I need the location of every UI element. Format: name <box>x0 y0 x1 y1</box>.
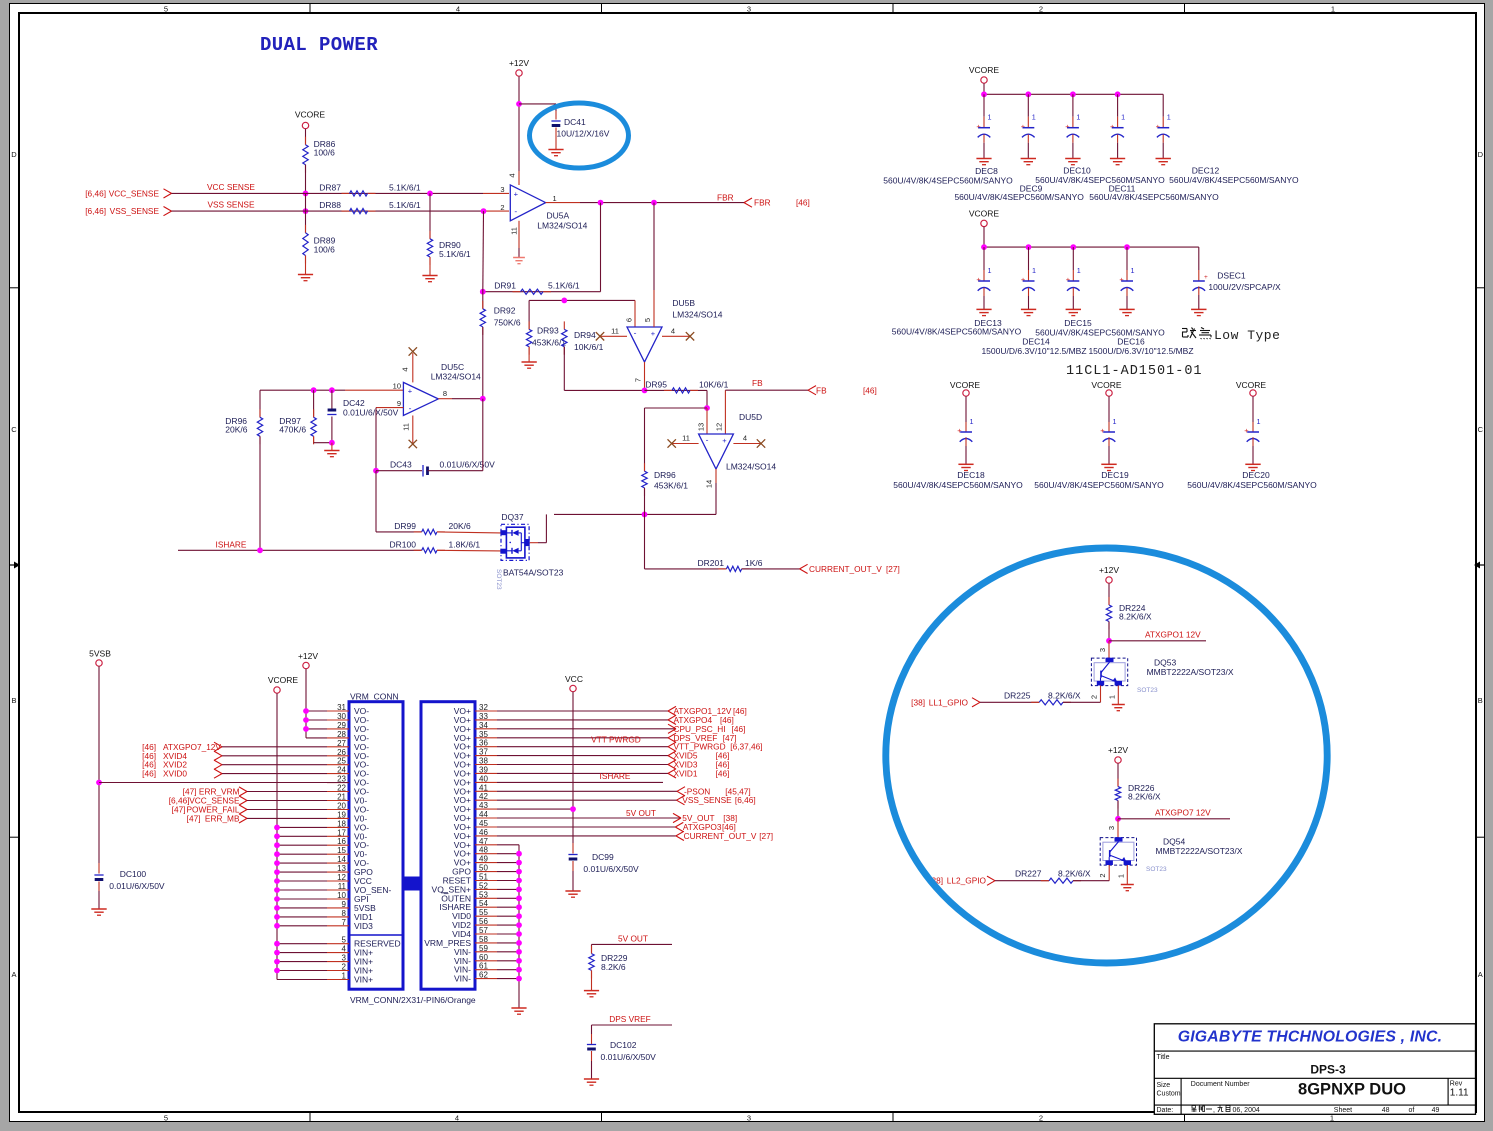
svg-text:3: 3 <box>500 185 504 194</box>
svg-text:VRM_CONN/2X31/-PIN6/Orange: VRM_CONN/2X31/-PIN6/Orange <box>350 995 476 1005</box>
wire +12V to DU5A pin 4 <box>518 77 520 172</box>
svg-text:Custom: Custom <box>1157 1091 1181 1098</box>
svg-text:51: 51 <box>479 873 488 882</box>
resistor DR225 inline <box>980 701 1039 703</box>
wire ATXGPO7_12V <box>1118 818 1230 820</box>
svg-text:VCC: VCC <box>565 674 583 684</box>
svg-text:VSS_SENSE: VSS_SENSE <box>110 206 160 216</box>
svg-text:VIN+: VIN+ <box>354 975 373 985</box>
svg-text:DEC19: DEC19 <box>1101 470 1129 480</box>
resistor DR88 inline <box>342 210 350 212</box>
svg-text:5: 5 <box>342 936 347 945</box>
svg-text:ISHARE: ISHARE <box>600 771 631 781</box>
svg-text:DEC12: DEC12 <box>1192 166 1220 176</box>
node pin13/DR96 <box>704 405 710 411</box>
svg-text:D: D <box>1478 150 1484 159</box>
svg-text:Rev: Rev <box>1450 1081 1463 1088</box>
svg-text:6: 6 <box>625 318 634 322</box>
svg-text:62: 62 <box>479 971 488 980</box>
svg-text:-: - <box>634 328 637 338</box>
svg-text:VIN-: VIN- <box>454 974 471 984</box>
right ports pins 32-46 <box>497 710 668 712</box>
svg-text:CURRENT_OUT_V: CURRENT_OUT_V <box>684 831 757 841</box>
node VCC pin43 <box>570 806 576 812</box>
svg-text:55: 55 <box>479 908 488 917</box>
wire DPS VREF stub <box>592 1024 673 1026</box>
node +12V/DC41 junction <box>516 101 522 107</box>
svg-text:58: 58 <box>479 935 488 944</box>
svg-text:13: 13 <box>696 423 705 431</box>
wire DC43 up to pin8 node <box>482 399 484 471</box>
svg-text:VCORE: VCORE <box>950 380 981 390</box>
svg-text:SOT23: SOT23 <box>1137 687 1158 694</box>
capacitor DEC15 <box>1072 247 1074 270</box>
svg-text:VCORE: VCORE <box>268 675 299 685</box>
svg-text:100U/2V/SPCAP/X: 100U/2V/SPCAP/X <box>1208 282 1281 292</box>
pin 11 stub DU5B <box>600 335 627 337</box>
svg-text:+: + <box>514 190 519 199</box>
node DR89 on VSS_SENSE <box>303 208 309 214</box>
svg-text:[27]: [27] <box>886 564 900 574</box>
svg-text:+: + <box>1100 426 1105 435</box>
svg-text:ISHARE: ISHARE <box>216 539 247 549</box>
svg-text:4: 4 <box>455 1113 459 1122</box>
svg-text:DC99: DC99 <box>592 852 614 862</box>
wire DU5A output FBR <box>546 202 580 204</box>
ground under DC102 <box>584 1078 599 1080</box>
ground under DR89 <box>298 274 313 276</box>
wire DR95 down to pin13 node <box>706 390 708 408</box>
svg-text:27: 27 <box>337 739 346 748</box>
svg-text:1: 1 <box>1121 113 1125 122</box>
svg-text:Date:: Date: <box>1157 1107 1174 1114</box>
svg-text:DR225: DR225 <box>1004 690 1031 700</box>
diode pair DQ37 BAT54A <box>501 524 529 560</box>
svg-text:560U/4V/8K/4SEPC560M/SANYO: 560U/4V/8K/4SEPC560M/SANYO <box>883 176 1013 186</box>
svg-text:1K/6: 1K/6 <box>745 558 763 568</box>
svg-text:DEC10: DEC10 <box>1063 166 1091 176</box>
svg-text:0.01U/6/X/50V: 0.01U/6/X/50V <box>109 881 165 891</box>
svg-text:+12V: +12V <box>1108 745 1128 755</box>
svg-text:2: 2 <box>1098 873 1107 877</box>
wire DR89 to ground <box>305 256 307 275</box>
svg-text:1: 1 <box>1167 113 1171 122</box>
svg-text:VCORE: VCORE <box>969 65 1000 75</box>
svg-text:5V OUT: 5V OUT <box>618 933 648 943</box>
svg-text:7: 7 <box>634 378 643 382</box>
wire DQ54 pin 1 to ground <box>1126 865 1128 885</box>
svg-text:560U/4V/8K/4SEPC560M/SANYO: 560U/4V/8K/4SEPC560M/SANYO <box>892 327 1022 337</box>
svg-text:VRM_CONN: VRM_CONN <box>350 692 399 702</box>
right bus pins 47-62 <box>497 844 519 846</box>
svg-text:DEC18: DEC18 <box>957 470 985 480</box>
svg-text:100/6: 100/6 <box>314 245 336 255</box>
svg-text:1: 1 <box>1116 874 1125 878</box>
pin 11 stub DU5D <box>672 443 699 445</box>
capacitor DEC16 <box>1126 247 1128 270</box>
svg-text:5.1K/6/1: 5.1K/6/1 <box>439 249 471 259</box>
svg-text:8GPNXP DUO: 8GPNXP DUO <box>1298 1081 1406 1099</box>
wire DR96 to node <box>644 488 646 515</box>
svg-text:LM324/SO14: LM324/SO14 <box>672 310 722 320</box>
resistor DR224 <box>1108 597 1110 605</box>
svg-text:8.2K/6: 8.2K/6 <box>601 962 626 972</box>
transistor DQ54 <box>1100 838 1136 866</box>
svg-text:5: 5 <box>643 318 652 322</box>
svg-text:FB: FB <box>816 385 827 395</box>
svg-text:9: 9 <box>342 900 347 909</box>
svg-text:1: 1 <box>1257 417 1261 426</box>
transistor DQ53 <box>1091 658 1127 686</box>
op-amp DU5A <box>510 185 545 221</box>
svg-text:+: + <box>976 122 981 131</box>
wire node to DR96-453K <box>645 407 708 409</box>
svg-text:48: 48 <box>479 846 488 855</box>
svg-text:2: 2 <box>1039 5 1043 14</box>
svg-text:560U/4V/8K/4SEPC560M/SANYO: 560U/4V/8K/4SEPC560M/SANYO <box>1035 175 1165 185</box>
svg-text:LL1_GPIO: LL1_GPIO <box>929 697 969 707</box>
svg-text:MMBT2222A/SOT23/X: MMBT2222A/SOT23/X <box>1156 846 1243 856</box>
svg-text:48: 48 <box>1382 1107 1390 1114</box>
svg-text:560U/4V/8K/4SEPC560M/SANYO: 560U/4V/8K/4SEPC560M/SANYO <box>1187 480 1317 490</box>
svg-text:10K/6/1: 10K/6/1 <box>574 342 604 352</box>
wire DU5C pin10 net <box>260 389 345 391</box>
svg-text:VSS SENSE: VSS SENSE <box>207 200 255 210</box>
bus +12V to pins 31-28 <box>305 669 307 738</box>
svg-text:ATXGPO1 12V: ATXGPO1 12V <box>1145 629 1201 639</box>
svg-text:DR99: DR99 <box>394 521 416 531</box>
svg-text:,: , <box>1213 1107 1215 1114</box>
svg-text:5.1K/6/1: 5.1K/6/1 <box>389 182 421 192</box>
annotation circle (transistors) <box>886 548 1327 963</box>
op-amp DU5C <box>403 382 438 415</box>
wire pin 43 to VCC <box>497 808 573 810</box>
svg-text:1: 1 <box>1032 113 1036 122</box>
svg-text:[6,46]: [6,46] <box>735 795 756 805</box>
svg-text:1: 1 <box>1113 417 1117 426</box>
svg-text:1: 1 <box>988 113 992 122</box>
svg-text:9: 9 <box>397 399 401 408</box>
node DR97 top <box>311 387 317 393</box>
svg-text:MMBT2222A/SOT23/X: MMBT2222A/SOT23/X <box>1147 667 1234 677</box>
svg-text:560U/4V/8K/4SEPC560M/SANYO: 560U/4V/8K/4SEPC560M/SANYO <box>1169 175 1299 185</box>
svg-text:14: 14 <box>705 480 714 488</box>
svg-text:A: A <box>1478 970 1483 979</box>
svg-text:100/6: 100/6 <box>314 148 336 158</box>
ground under DR90 <box>422 275 437 277</box>
svg-text:-: - <box>409 403 412 413</box>
wire ISHARE <box>178 549 422 551</box>
svg-text:DR95: DR95 <box>645 379 667 389</box>
svg-text:+12V: +12V <box>1099 565 1119 575</box>
svg-text:470K/6: 470K/6 <box>279 425 306 435</box>
resistor DR86 <box>305 137 307 145</box>
svg-text:DEC16: DEC16 <box>1117 337 1145 347</box>
capacitor DEC9 <box>1027 94 1029 116</box>
svg-text:0.01U/6/X/50V: 0.01U/6/X/50V <box>601 1052 657 1062</box>
wire DQ53 pin 3 <box>1108 641 1110 658</box>
svg-text:8.2K/6/X: 8.2K/6/X <box>1048 690 1081 700</box>
node ATXGPO1_12V <box>1106 638 1112 644</box>
node DC42 bottom <box>329 440 335 446</box>
resistor DR96 20K <box>259 390 261 417</box>
node DR86/DR89 on VCC_SENSE <box>303 191 309 197</box>
svg-text:57: 57 <box>479 926 488 935</box>
wire to DC41 <box>519 103 556 105</box>
svg-text:DEC8: DEC8 <box>975 166 998 176</box>
svg-text:1: 1 <box>1032 266 1036 275</box>
right margin arrow marker <box>1479 564 1485 566</box>
capacitor DEC19 <box>1108 396 1110 422</box>
bus bank2 <box>983 227 985 248</box>
wire 5VSB to pin 23 and DC100 <box>98 666 100 863</box>
svg-text:DU5C: DU5C <box>441 362 464 372</box>
svg-text:42: 42 <box>479 792 488 801</box>
annotation ellipse around DC41 <box>530 103 629 168</box>
capacitor DC100 <box>94 874 103 876</box>
wire DR86 to VCC_SENSE net <box>305 165 307 194</box>
svg-text:+: + <box>1204 274 1208 281</box>
svg-text:10: 10 <box>337 891 346 900</box>
wire VCC to DC99 <box>572 692 574 843</box>
node FBR/DR91 <box>598 200 604 206</box>
svg-text:11CL1-AD1501-01: 11CL1-AD1501-01 <box>1066 364 1203 379</box>
capacitor DEC20 <box>1252 396 1254 422</box>
svg-text:D: D <box>11 150 17 159</box>
svg-text:+: + <box>651 329 656 338</box>
svg-text:0.01U/6/X/50V: 0.01U/6/X/50V <box>440 460 496 470</box>
wire DR94 to DU5B output node <box>563 347 565 391</box>
svg-text:Sheet: Sheet <box>1334 1107 1352 1114</box>
svg-text:FBR: FBR <box>717 192 734 202</box>
svg-text:5VSB: 5VSB <box>89 649 111 659</box>
wire pin2 node down to DR92 <box>482 211 485 292</box>
svg-text:11: 11 <box>611 326 619 335</box>
svg-text:5V OUT: 5V OUT <box>626 808 656 818</box>
svg-text:19: 19 <box>337 810 346 819</box>
svg-text:1: 1 <box>1131 266 1135 275</box>
svg-text:[47]: [47] <box>172 805 186 815</box>
svg-text:DUAL POWER: DUAL POWER <box>260 34 378 56</box>
svg-text:0.01U/6/X/50V: 0.01U/6/X/50V <box>343 408 399 418</box>
svg-text:+: + <box>1021 275 1026 284</box>
svg-text:30: 30 <box>337 712 346 721</box>
svg-text:20K/6: 20K/6 <box>225 425 247 435</box>
svg-text:5.1K/6/1: 5.1K/6/1 <box>389 200 421 210</box>
svg-text:2: 2 <box>342 963 347 972</box>
svg-text:4: 4 <box>342 945 347 954</box>
wire VSS_SENSE to DU5A pin 2 <box>172 210 484 212</box>
svg-text:28: 28 <box>337 730 346 739</box>
svg-text:3: 3 <box>747 1113 751 1122</box>
svg-text:+: + <box>722 436 727 445</box>
svg-text:560U/4V/8K/4SEPC560M/SANYO: 560U/4V/8K/4SEPC560M/SANYO <box>893 480 1023 490</box>
node output/DR96 chain <box>642 512 648 518</box>
node ATXGPO7_12V <box>1115 816 1121 822</box>
svg-text:1: 1 <box>1076 113 1080 122</box>
svg-text:20K/6: 20K/6 <box>449 521 471 531</box>
svg-text:VCORE: VCORE <box>1236 380 1267 390</box>
svg-text:21: 21 <box>337 793 346 802</box>
svg-text:DR227: DR227 <box>1015 869 1042 879</box>
wire FB from pin12 <box>724 390 726 434</box>
node DR91 left <box>480 289 486 295</box>
svg-text:C: C <box>11 425 17 434</box>
svg-text:Title: Title <box>1157 1054 1170 1061</box>
svg-text:1: 1 <box>342 972 347 981</box>
svg-text:8: 8 <box>342 909 347 918</box>
svg-text:53: 53 <box>479 890 488 899</box>
svg-text:56: 56 <box>479 917 488 926</box>
svg-text:22: 22 <box>337 784 346 793</box>
resistor DR87 inline <box>342 192 350 194</box>
svg-text:46: 46 <box>479 828 488 837</box>
wire DU5B pin5 from FBR <box>653 203 655 290</box>
resistor DR229 <box>591 946 593 954</box>
resistor DR95 inline <box>645 389 708 391</box>
svg-text:560U/4V/8K/4SEPC560M/SANYO: 560U/4V/8K/4SEPC560M/SANYO <box>954 192 1084 202</box>
svg-text:C: C <box>1478 425 1484 434</box>
ground under DC99 <box>565 890 580 892</box>
svg-text:[46]: [46] <box>796 198 810 208</box>
svg-text:1: 1 <box>553 194 557 203</box>
svg-text:3: 3 <box>747 5 751 14</box>
svg-text:18: 18 <box>337 819 346 828</box>
svg-text:47: 47 <box>479 837 488 846</box>
svg-text:DC100: DC100 <box>120 869 147 879</box>
svg-text:LL2_GPIO: LL2_GPIO <box>947 876 987 886</box>
svg-text:DR201: DR201 <box>698 558 725 568</box>
svg-text:8.2K/6/X: 8.2K/6/X <box>1128 792 1161 802</box>
svg-text:0.01U/6/X/50V: 0.01U/6/X/50V <box>583 864 639 874</box>
wire VCC_SENSE to DU5A pin 3 <box>172 192 484 194</box>
svg-text:DPS-3: DPS-3 <box>1310 1063 1346 1077</box>
pin 4 stub DU5C <box>412 353 414 382</box>
svg-text:DPS VREF: DPS VREF <box>609 1014 651 1024</box>
capacitor DEC12 <box>1162 94 1164 116</box>
svg-text:39: 39 <box>479 765 488 774</box>
svg-text:1: 1 <box>1108 695 1117 699</box>
svg-text:1: 1 <box>1077 266 1081 275</box>
resistor DR100 inline <box>414 549 422 551</box>
svg-text:DR91: DR91 <box>494 281 516 291</box>
svg-text:20: 20 <box>337 802 346 811</box>
svg-text:43: 43 <box>479 801 488 810</box>
svg-text:06, 2004: 06, 2004 <box>1233 1107 1260 1114</box>
wire DR96 to ISHARE <box>259 436 261 550</box>
svg-text:DEC20: DEC20 <box>1242 470 1270 480</box>
svg-text:DR100: DR100 <box>390 539 417 549</box>
svg-text:B: B <box>1478 696 1483 705</box>
svg-text:+: + <box>976 275 981 284</box>
capacitor DSEC1 <box>1198 247 1200 270</box>
svg-text:+: + <box>1065 122 1070 131</box>
svg-text:VCORE: VCORE <box>295 110 326 120</box>
svg-text:38: 38 <box>479 757 488 766</box>
node pin8 <box>480 396 486 402</box>
svg-text:A: A <box>11 970 16 979</box>
svg-text:VCC_SENSE: VCC_SENSE <box>109 188 160 198</box>
svg-text:41: 41 <box>479 783 488 792</box>
svg-text:10U/12/X/16V: 10U/12/X/16V <box>557 129 610 139</box>
pin 4 stub DU5D <box>733 443 761 445</box>
svg-text:11: 11 <box>510 227 519 235</box>
capacitor DEC18 <box>965 396 967 422</box>
resistor DR89 <box>305 193 307 232</box>
svg-text:16: 16 <box>337 837 346 846</box>
wire DQ54 pin 2 <box>1108 865 1110 881</box>
resistor DR201 inline <box>718 568 726 570</box>
resistor DR94 <box>563 321 565 329</box>
svg-text:4: 4 <box>508 173 517 177</box>
ground under DR93 <box>522 361 537 363</box>
wire DU5B pin6 net <box>529 299 635 301</box>
wire DQ53 pin 2 <box>1100 686 1102 703</box>
svg-text:560U/4V/8K/4SEPC560M/SANYO: 560U/4V/8K/4SEPC560M/SANYO <box>1034 480 1164 490</box>
pin 11 stub DU5C <box>412 416 414 444</box>
svg-text:13: 13 <box>337 864 346 873</box>
svg-text:3: 3 <box>342 954 347 963</box>
resistor DR90 <box>429 193 431 238</box>
svg-text:[46]: [46] <box>733 706 747 716</box>
svg-text:33: 33 <box>479 712 488 721</box>
svg-text:of: of <box>1409 1107 1415 1114</box>
svg-text:29: 29 <box>337 721 346 730</box>
svg-text:-: - <box>514 206 517 216</box>
svg-text:DR87: DR87 <box>319 182 341 192</box>
svg-text:LM324/SO14: LM324/SO14 <box>431 372 481 382</box>
capacitor DC43 inline <box>376 470 422 472</box>
svg-text:26: 26 <box>337 748 346 757</box>
svg-text:1: 1 <box>970 417 974 426</box>
left margin arrow marker <box>10 564 16 566</box>
zone column ticks top <box>309 4 311 14</box>
node DC43 left <box>373 468 379 474</box>
capacitor DC99 <box>568 854 577 856</box>
svg-text:12: 12 <box>715 423 724 431</box>
svg-text:2: 2 <box>1039 1113 1043 1122</box>
svg-text:+: + <box>1119 275 1124 284</box>
svg-text:[6,37,46]: [6,37,46] <box>730 742 762 752</box>
svg-text:+: + <box>1110 122 1115 131</box>
svg-text:49: 49 <box>1432 1107 1440 1114</box>
svg-text:5: 5 <box>164 1113 168 1122</box>
wire DQ54 pin 3 <box>1117 819 1119 838</box>
ground under DQ53 <box>1112 704 1125 706</box>
svg-text:GIGABYTE THCHNOLOGIES , INC.: GIGABYTE THCHNOLOGIES , INC. <box>1178 1029 1443 1046</box>
svg-text:4: 4 <box>671 326 675 335</box>
connector VRM_CONN right body <box>421 702 475 990</box>
connector right pins <box>475 710 497 712</box>
svg-text:DSEC1: DSEC1 <box>1217 271 1246 281</box>
wire DU5C output pin 8 <box>438 398 452 400</box>
svg-text:+: + <box>957 426 962 435</box>
resistor DR96 453K <box>644 408 646 471</box>
svg-text:31: 31 <box>337 703 346 712</box>
node DU5B output <box>642 388 648 394</box>
svg-text:FBR: FBR <box>754 198 771 208</box>
svg-text:FB: FB <box>752 378 763 388</box>
resistor DR93 <box>528 300 530 329</box>
svg-text:VID3: VID3 <box>354 921 373 931</box>
svg-text:+: + <box>1156 122 1161 131</box>
svg-text:40: 40 <box>479 774 488 783</box>
svg-text:[46]: [46] <box>863 385 877 395</box>
svg-text:4: 4 <box>456 5 460 14</box>
svg-text:5: 5 <box>164 5 168 14</box>
wire 5V OUT stub <box>592 943 673 945</box>
svg-text:11: 11 <box>402 423 411 431</box>
